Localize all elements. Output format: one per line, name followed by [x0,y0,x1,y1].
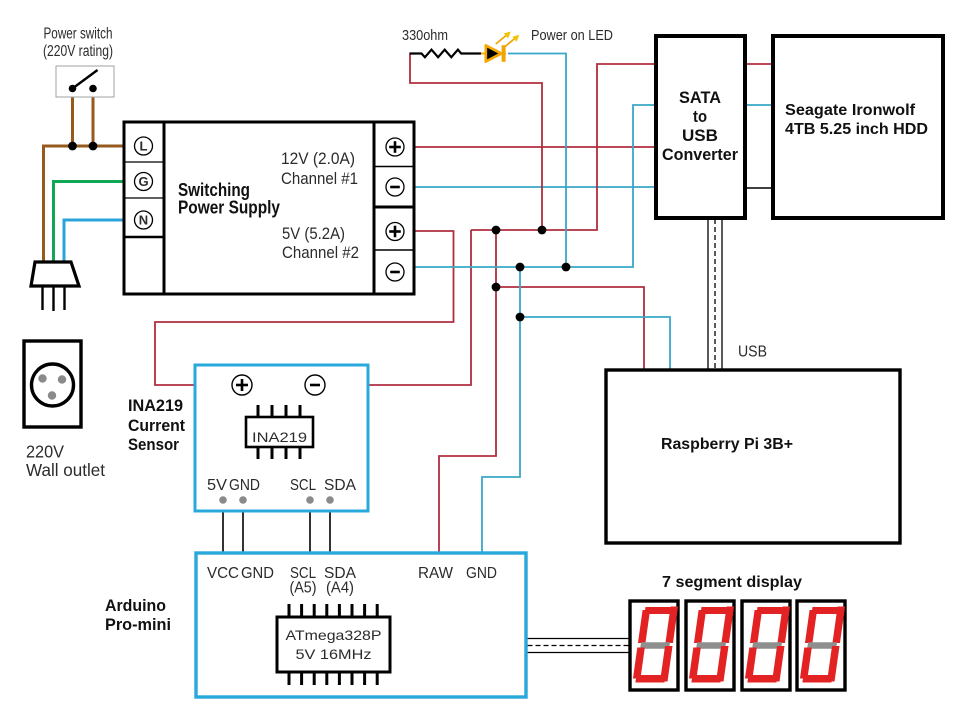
wire: green earth from plug to G terminal [54,182,127,265]
terminal - of INA219 [305,375,325,395]
svg-text:Channel #2: Channel #2 [282,243,359,262]
svg-text:RAW: RAW [418,565,454,582]
wire: cyan ground branch to Raspberry Pi GND [520,267,670,372]
svg-text:VCC: VCC [207,565,239,582]
wire: red 5V between SATA converter and HDD [743,63,775,65]
svg-text:G: G [138,174,148,189]
junction dot: GND net / LED cathode [562,263,571,272]
junction dot: GND net / Arduino branch [516,263,525,272]
Seagate Ironwolf HDD box [773,36,943,218]
7-segment digit 2 [686,601,734,690]
svg-text:12V (2.0A): 12V (2.0A) [281,149,355,168]
terminal -12V of power supply [386,178,404,196]
svg-text:Power switch: Power switch [44,26,113,43]
svg-text:5V (5.2A): 5V (5.2A) [282,224,345,243]
power switch SW1 (220V rating) [56,66,114,97]
svg-text:ATmega328P: ATmega328P [286,627,382,643]
wire: red 5V+ from channel2 + looping to INA219 + terminal [155,231,454,385]
svg-text:7 segment display: 7 segment display [662,574,802,591]
svg-text:SCL: SCL [290,477,316,494]
resistor R1 330ohm [410,50,482,58]
svg-text:Current: Current [128,416,185,435]
wire: INA219 SDA to Arduino A4 [329,502,331,554]
pin SDA of INA219 [324,477,356,504]
svg-text:Converter: Converter [662,145,738,164]
svg-text:USB: USB [738,344,767,361]
svg-text:Pro-mini: Pro-mini [105,615,171,634]
USB cable from SATA converter to Raspberry Pi [708,219,722,369]
wire: cyan 5V- ground net then up into SATA converter [405,105,659,267]
junction dot: 5V net / LED branch [538,226,547,235]
svg-text:(A4): (A4) [326,580,354,597]
wire: INA219 GND to Arduino GND [242,502,244,554]
wire: cyan from LED cathode down to ground net [508,54,566,268]
svg-text:to: to [693,107,707,126]
terminal G of power supply [135,173,153,191]
svg-text:5V: 5V [207,477,227,494]
wire: INA219 SCL to Arduino A5 [309,502,311,554]
terminal + of INA219 [232,375,252,395]
svg-text:Power Supply: Power Supply [178,198,280,218]
switching power supply PS1 body [124,122,414,294]
svg-text:220V: 220V [26,442,64,462]
svg-text:GND: GND [241,565,274,582]
pin GND of INA219 [229,477,260,504]
svg-text:Raspberry Pi 3B+: Raspberry Pi 3B+ [661,436,793,453]
pin 5V of INA219 [207,477,227,504]
svg-text:Seagate Ironwolf: Seagate Ironwolf [785,102,916,119]
7-segment digit 3 [742,601,790,690]
wire: cyan 12V- from channel1 - to SATA converter [405,186,659,188]
svg-text:SDA: SDA [324,477,356,494]
wire: red 12V+ from channel1 + to SATA converter [405,146,659,148]
junction dot: red RPi / RAW split [492,283,501,292]
junction dot: live wire junction 1 [68,142,77,151]
wire: red branch down to Arduino RAW [439,287,496,554]
pin SCL of INA219 [290,477,316,504]
wire: brown live vertical down to plug [42,146,45,264]
wire: cyan GND between SATA converter and HDD [743,104,775,106]
ribbon cable from Arduino to 7 segment display [528,639,631,653]
LED D1 power-on indicator [481,32,519,62]
INA219 current sensor module U2 board [195,365,368,511]
terminal -5V of power supply [386,263,404,281]
wire: black SATA data between converter and HDD [743,187,775,189]
wire: brown live from switch contact 1 down to junction [71,89,74,148]
svg-text:Arduino: Arduino [105,596,166,615]
wire: blue neutral from plug to N terminal [64,220,126,264]
junction dot: live wire junction 2 [89,142,98,151]
wire: INA219 5V to Arduino VCC [222,502,224,554]
chip U3 ATmega328P [277,604,390,685]
junction dot: cyan RPi / GND split [516,313,525,322]
svg-text:GND: GND [229,477,260,494]
svg-text:4TB 5.25 inch HDD: 4TB 5.25 inch HDD [785,121,928,138]
svg-text:INA219: INA219 [252,430,307,445]
junction dot: 5V net / RPi branch [492,226,501,235]
svg-text:INA219: INA219 [128,396,183,415]
svg-text:L: L [140,139,148,154]
svg-text:N: N [139,213,148,228]
220V wall outlet symbol [24,341,81,427]
wire: brown live horizontal to L terminal [42,145,126,148]
svg-text:(A5): (A5) [290,580,317,597]
svg-text:SATA: SATA [679,88,721,107]
svg-text:Sensor: Sensor [128,435,179,454]
wire: red from INA219 - terminal up to 5V net [326,230,472,385]
SATA to USB converter box [656,36,745,218]
svg-text:GND: GND [466,565,497,582]
terminal L of power supply [135,137,153,155]
Arduino Pro-mini U3 board [196,553,526,697]
svg-text:330ohm: 330ohm [402,27,448,44]
svg-text:Power on LED: Power on LED [531,28,613,44]
Raspberry Pi 3B+ box [606,370,900,543]
terminal +12V of power supply [386,138,404,156]
svg-text:Channel #1: Channel #1 [281,169,358,188]
7-segment digit 1 [630,601,678,690]
terminal N of power supply [135,211,153,229]
svg-text:5V 16MHz: 5V 16MHz [296,646,372,662]
wire: red branch up to LED resistor [410,54,542,231]
chip U2 INA219 [246,405,313,459]
wire: red branch to Raspberry Pi 5V [496,230,644,372]
wire: red 5V net horizontal then up into SATA converter [471,64,658,230]
wire: cyan ground branch down to Arduino GND [482,317,520,554]
svg-text:(220V rating): (220V rating) [43,43,113,60]
svg-text:Wall outlet: Wall outlet [26,460,105,480]
svg-text:USB: USB [682,126,718,145]
terminal +5V of power supply [386,223,404,241]
7-segment digit 4 [797,601,845,690]
wire: brown live from switch contact 2 down to junction [92,89,95,148]
power plug [31,262,79,311]
